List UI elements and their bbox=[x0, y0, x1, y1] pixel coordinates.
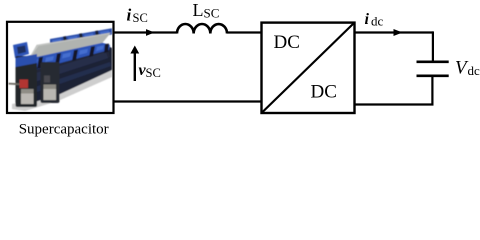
svg-text:i: i bbox=[127, 6, 132, 25]
svg-text:SC: SC bbox=[146, 66, 161, 80]
svg-text:dc: dc bbox=[371, 14, 384, 29]
svg-text:i: i bbox=[365, 11, 370, 28]
svg-text:DC: DC bbox=[274, 32, 300, 53]
svg-text:dc: dc bbox=[468, 63, 480, 78]
svg-text:Supercapacitor: Supercapacitor bbox=[19, 122, 109, 138]
svg-text:DC: DC bbox=[311, 81, 337, 102]
svg-text:SC: SC bbox=[133, 11, 148, 25]
svg-text:SC: SC bbox=[204, 6, 220, 21]
svg-text:L: L bbox=[193, 0, 204, 20]
